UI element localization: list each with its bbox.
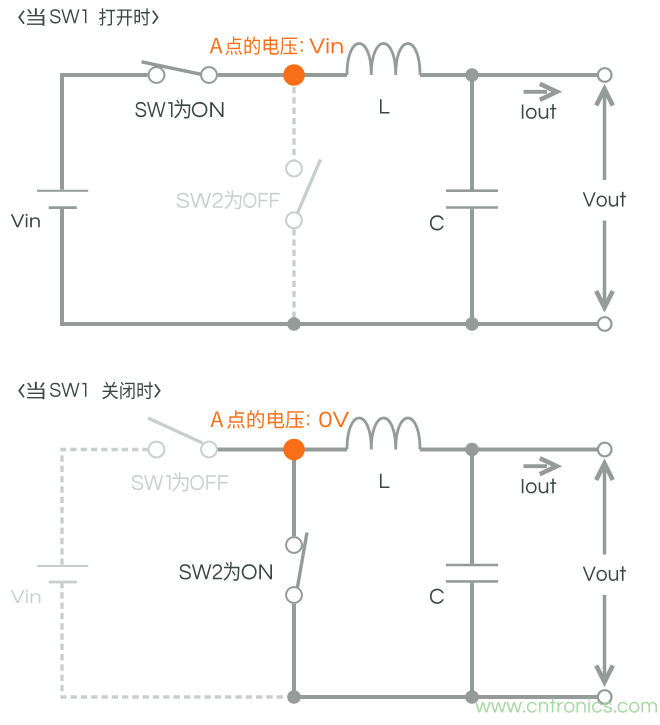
switch SW1: right contact — [201, 67, 217, 83]
switch SW2: lever — [298, 160, 321, 214]
switch SW1: lever — [148, 418, 203, 443]
wire (inactive, dashed): battery negative to bottom-left corner — [62, 582, 287, 697]
junction: bottom rail at SW2 branch — [287, 690, 301, 704]
label SW1为ON — [135, 99, 223, 118]
wire: bottom rail (active part, SW2 junction to output terminal) — [294, 695, 598, 699]
label Vin — [11, 214, 40, 227]
capacitor C: top plate — [446, 189, 498, 192]
junction: bottom rail at capacitor branch — [465, 317, 479, 331]
terminal: output positive (open circle) — [598, 68, 612, 82]
title: 当SW1打开时 — [19, 11, 24, 24]
battery Vin (inactive): negative plate (short) — [49, 581, 77, 584]
switch SW2: lever — [298, 533, 308, 588]
label Vout — [583, 566, 626, 581]
capacitor C: top plate — [446, 564, 498, 567]
switch SW1 (open/OFF): left contact — [149, 442, 165, 458]
switch SW2: lower contact — [286, 587, 302, 603]
wire: node A down to SW2 upper contact — [292, 450, 296, 537]
wire: capacitor C down to bottom rail — [470, 583, 474, 697]
wire: node A to inductor L — [294, 73, 347, 77]
terminal: output negative (open circle) — [598, 690, 612, 704]
junction: bottom rail at capacitor branch — [465, 690, 479, 704]
wire: inductor to output terminal (top rail right section) — [420, 448, 598, 452]
wire (inactive, dashed): node A down to SW2 upper contact — [292, 87, 295, 160]
switch SW2 (open/OFF): upper contact — [286, 161, 302, 177]
label Iout — [522, 479, 557, 494]
watermark: www.cntronics.com — [475, 698, 657, 713]
wire: top rail down to capacitor C — [470, 450, 474, 564]
label Vout — [583, 192, 626, 207]
wire: SW2 lower contact down to bottom rail — [292, 604, 296, 697]
battery Vin: positive plate (long) — [37, 190, 88, 192]
junction: top rail to capacitor branch — [465, 443, 479, 457]
terminal: output negative (open circle) — [598, 317, 612, 331]
capacitor C: bottom plate — [446, 580, 498, 583]
battery Vin: negative plate (short) — [49, 206, 77, 209]
switch SW1: right contact — [201, 442, 217, 458]
wire: inductor to output terminal (top rail right section) — [420, 73, 598, 77]
wire: bottom rail — [60, 322, 598, 326]
label C — [430, 589, 444, 604]
wire: battery negative down to bottom-left corner — [60, 208, 64, 324]
capacitor C: bottom plate — [446, 206, 498, 209]
label SW1为OFF — [132, 472, 228, 491]
wire: SW1 right contact to node A — [218, 73, 294, 77]
switch SW2 (closed/ON): upper contact — [286, 537, 302, 553]
wire: capacitor C down to bottom rail — [470, 209, 474, 324]
label L — [380, 474, 389, 488]
label SW2为OFF — [177, 190, 280, 209]
arrow: Iout current direction — [524, 464, 548, 468]
wire: SW1 right contact to node A — [218, 448, 294, 452]
arrow: Vout measurement (double-headed) — [596, 464, 613, 683]
wire (inactive, dashed): battery positive to top-left corner and to SW1 — [62, 450, 148, 565]
junction: top rail to capacitor branch — [465, 68, 479, 82]
switch SW1: lever — [142, 62, 201, 74]
wire (inactive, dashed): SW2 lower contact down to bottom rail — [292, 229, 295, 319]
wire: top rail down to capacitor C — [470, 75, 474, 190]
label Vin (inactive) — [11, 590, 41, 603]
inductor L — [347, 44, 420, 76]
label: voltage at node A = 0V — [211, 410, 350, 429]
wire: battery positive up to top-left corner and to SW1 — [62, 75, 148, 190]
arrow: Vout measurement (double-headed) — [596, 89, 613, 308]
wire: node A to inductor L — [294, 448, 347, 452]
switch SW1 (closed/ON): left contact — [149, 67, 165, 83]
label C — [430, 215, 444, 230]
node A (switching node) — [283, 64, 305, 86]
label: voltage at node A = Vin — [210, 37, 343, 56]
node A (switching node) — [283, 439, 305, 461]
label SW2为ON — [180, 562, 273, 581]
label Iout — [522, 104, 557, 119]
junction: bottom rail at SW2 branch — [287, 317, 301, 331]
battery Vin (inactive): positive plate (long) — [37, 565, 88, 567]
label L — [380, 99, 389, 113]
switch SW2: lower contact — [286, 212, 302, 228]
terminal: output positive (open circle) — [598, 443, 612, 457]
title: 当SW1关闭时 — [19, 384, 24, 397]
arrow: Iout current direction — [524, 90, 548, 94]
inductor L — [347, 418, 420, 450]
